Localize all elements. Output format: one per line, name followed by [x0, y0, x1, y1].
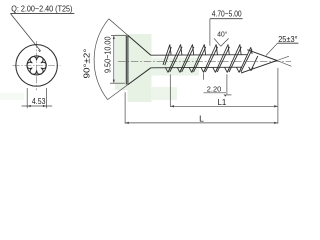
90deg construction line upper cone edge extended	[109, 19, 128, 36]
label 25±3° with leader	[266, 35, 298, 56]
head diameter dim extension bottom	[110, 82, 125, 84]
svg-text:L1: L1	[218, 97, 227, 107]
leader line to torx recess	[11, 14, 41, 52]
head flat face inner line	[127, 35, 129, 84]
watermark block left strip	[115, 34, 128, 90]
svg-text:Q: 2.00~2.40 (T25): Q: 2.00~2.40 (T25)	[11, 5, 72, 14]
dimension 4.53 extension line right	[46, 88, 48, 108]
tip angle construction extension upper	[277, 61, 292, 67]
centerline horizontal (top view)	[13, 64, 61, 66]
head diameter dimension line with arrows	[113, 35, 115, 83]
shank / thread root bottom line	[151, 66, 242, 69]
screw axis centerline	[118, 60, 291, 62]
head diameter dim extension top	[111, 34, 126, 36]
countersink angle arc	[94, 19, 109, 100]
dimension 2.20	[204, 73, 232, 96]
head cone lower edge	[128, 68, 151, 85]
label Q: 2.00~2.40 (T25)	[10, 5, 74, 14]
90deg construction line lower cone edge extended	[108, 85, 128, 100]
centerline vertical (top view)	[36, 41, 38, 90]
L and L1 extension right at tip	[277, 68, 279, 124]
shank / thread root top line	[151, 54, 248, 57]
head cone upper edge	[128, 35, 151, 55]
watermark faint left band	[0, 93, 24, 100]
recess inner circle	[27, 56, 46, 75]
svg-text:L: L	[199, 113, 204, 123]
svg-text:90°±2°: 90°±2°	[82, 49, 91, 79]
tip cone lower edge	[241, 61, 277, 74]
L1 extension left	[169, 75, 171, 107]
L extension left at head face	[124, 92, 126, 123]
svg-text:2.20: 2.20	[207, 84, 221, 93]
tip cone upper edge	[247, 50, 277, 61]
svg-text:9.50~10.00: 9.50~10.00	[104, 36, 113, 73]
tip angle construction extension lower	[277, 56, 289, 60]
watermark block behind head	[128, 34, 152, 102]
dimension 4.53 extension line left	[26, 88, 28, 108]
dimension 4.53 line with arrows	[22, 105, 53, 107]
svg-text:40°: 40°	[217, 29, 227, 38]
label 40deg with V lines	[214, 29, 229, 46]
watermark arm upper	[151, 58, 199, 76]
svg-text:4.70~5.00: 4.70~5.00	[212, 9, 242, 18]
svg-text:25±3°: 25±3°	[278, 35, 297, 44]
head outer circle	[16, 45, 58, 87]
head flat face outer line	[125, 35, 127, 84]
thread blades	[163, 44, 258, 72]
dimension L	[125, 113, 278, 124]
label 4.70~5.00 with leader	[210, 9, 243, 45]
watermark arm lower	[151, 87, 177, 100]
svg-text:4.53: 4.53	[32, 97, 46, 106]
dimension L1	[170, 97, 278, 107]
torx star T25	[27, 57, 46, 75]
